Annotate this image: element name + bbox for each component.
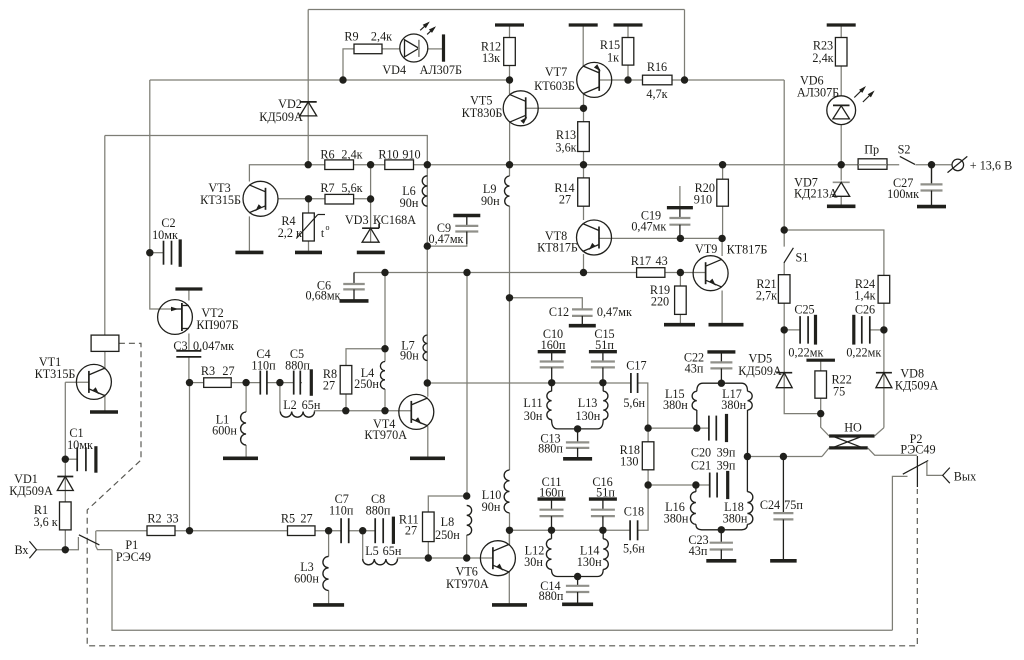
svg-text:КТ315Б: КТ315Б bbox=[35, 367, 76, 381]
label VD8 bbox=[895, 367, 939, 393]
resistor R17 bbox=[637, 268, 665, 278]
svg-text:65н: 65н bbox=[302, 398, 321, 412]
svg-text:600н: 600н bbox=[294, 572, 319, 586]
bar VD4 термination bbox=[442, 34, 445, 61]
resistor R15 bbox=[622, 38, 634, 66]
svg-text:90н: 90н bbox=[400, 349, 419, 363]
svg-text:КТ830Б: КТ830Б bbox=[462, 106, 503, 120]
wire VT1 base bbox=[65, 381, 89, 383]
wire C3 bottom bbox=[188, 357, 190, 383]
node C22 bottom bbox=[718, 380, 725, 387]
transistor VT7 bbox=[577, 62, 612, 97]
inductor L12 L14 pair bbox=[546, 530, 608, 576]
diode VD5 bbox=[776, 373, 792, 388]
svg-text:130: 130 bbox=[620, 455, 638, 469]
node C6 row x467 bbox=[463, 269, 470, 276]
capacitor C11 bbox=[538, 499, 566, 530]
label L3 bbox=[294, 560, 319, 586]
ground R19 bbox=[664, 323, 695, 327]
wire R11 top link bbox=[428, 496, 466, 512]
svg-text:380н: 380н bbox=[721, 398, 746, 412]
label C23 bbox=[688, 533, 708, 558]
svg-text:380н: 380н bbox=[723, 512, 748, 526]
wire R15 leads bbox=[627, 25, 629, 80]
wire C27 stub bbox=[931, 165, 933, 185]
label +13.6V bbox=[970, 159, 1012, 173]
svg-text:R5: R5 bbox=[281, 512, 295, 526]
wire HO upper lead bbox=[821, 414, 829, 436]
svg-text:0,68мк: 0,68мк bbox=[306, 289, 341, 303]
resistor R13 bbox=[578, 122, 590, 152]
label S1 bbox=[795, 251, 808, 265]
node VT5 collector bbox=[506, 76, 513, 83]
wire R14 leads bbox=[583, 165, 585, 220]
transistor VT8 bbox=[577, 220, 612, 255]
node R9 branch bbox=[339, 76, 346, 83]
wire R21 bottom bbox=[783, 303, 785, 330]
wire VD4 to bar bbox=[428, 48, 444, 50]
transistor VT5 bbox=[503, 91, 538, 126]
node R19 top bbox=[677, 269, 684, 276]
label L2 bbox=[283, 398, 321, 412]
inductor L6 bbox=[422, 176, 427, 206]
capacitor C24 bbox=[770, 457, 797, 561]
capacitor C13 bbox=[563, 429, 592, 459]
svg-text:0,047мк: 0,047мк bbox=[193, 339, 234, 353]
label C27 bbox=[887, 176, 919, 201]
wire C26 link bbox=[870, 329, 884, 331]
resistor R23 bbox=[835, 38, 847, 67]
wire L1 gnd lead bbox=[245, 445, 247, 458]
label C12 bbox=[549, 305, 632, 319]
wire x467 column bbox=[466, 273, 468, 497]
label R16 bbox=[646, 60, 667, 101]
label VD4 bbox=[382, 63, 462, 77]
wire R13 leads bbox=[583, 108, 585, 164]
svg-text:2,7к: 2,7к bbox=[756, 289, 777, 303]
wire C19 top stub bbox=[679, 186, 681, 206]
svg-text:39п: 39п bbox=[717, 459, 736, 473]
inductor L2 bbox=[280, 411, 316, 418]
wire L1 stub bbox=[245, 383, 247, 412]
wire P2 right contact bbox=[927, 462, 943, 475]
svg-text:110п: 110п bbox=[251, 359, 276, 373]
wire VT1 emitter bbox=[104, 394, 106, 411]
label C18 bbox=[623, 504, 645, 555]
svg-text:130н: 130н bbox=[577, 555, 602, 569]
wire y456 row bbox=[747, 456, 822, 458]
resistor R8 bbox=[340, 366, 352, 395]
label R22 bbox=[832, 373, 852, 399]
label R4 bbox=[278, 214, 330, 240]
svg-text:КД213А: КД213А bbox=[794, 187, 838, 201]
wire R18 leads bbox=[647, 428, 649, 485]
transistor VT3 bbox=[243, 181, 278, 216]
wire VT2 drain bbox=[188, 289, 190, 301]
wire HO lower-left link bbox=[822, 448, 829, 457]
label VT1 bbox=[35, 355, 76, 381]
svg-text:100мк: 100мк bbox=[887, 187, 919, 201]
wire R8 bot lead bbox=[345, 394, 347, 411]
svg-text:43: 43 bbox=[656, 254, 668, 268]
inductor L5 bbox=[363, 558, 399, 565]
svg-text:75: 75 bbox=[833, 385, 845, 399]
label L9 bbox=[481, 182, 500, 208]
diode VD2 bbox=[300, 102, 317, 116]
wire R24 branch bbox=[784, 230, 884, 275]
svg-text:160п: 160п bbox=[539, 486, 564, 500]
capacitor C12 bbox=[569, 309, 596, 325]
wire VD8 column bbox=[883, 330, 885, 428]
svg-text:C20: C20 bbox=[691, 446, 711, 460]
capacitor C22 bbox=[707, 352, 735, 383]
svg-text:30н: 30н bbox=[524, 409, 543, 423]
label L15 bbox=[663, 387, 688, 412]
label R18 bbox=[620, 443, 640, 469]
wire VT6 emitter bbox=[508, 572, 510, 605]
label R1 bbox=[33, 503, 57, 529]
node R22 bottom bbox=[817, 410, 824, 417]
svg-text:2,4к: 2,4к bbox=[341, 148, 362, 162]
label C2 bbox=[152, 216, 178, 242]
svg-text:3,6к: 3,6к bbox=[555, 141, 576, 155]
label HO bbox=[844, 421, 862, 435]
wire VT7 emitter top bbox=[582, 25, 584, 67]
label Vyx bbox=[954, 470, 976, 484]
node R11 bottom bbox=[425, 554, 432, 561]
label R13 bbox=[555, 128, 576, 155]
svg-text:2,4к: 2,4к bbox=[371, 30, 392, 44]
svg-text:250н: 250н bbox=[354, 377, 379, 391]
svg-text:0,47мк: 0,47мк bbox=[597, 305, 632, 319]
node C11 bottom bbox=[548, 527, 555, 534]
label L13 bbox=[575, 396, 600, 423]
label VD1 bbox=[9, 472, 53, 498]
label Vx bbox=[14, 543, 28, 557]
capacitor C14 bbox=[562, 577, 593, 605]
node C27 top bbox=[928, 161, 935, 168]
power bar VT2 drain bbox=[175, 287, 202, 290]
svg-text:РЭС49: РЭС49 bbox=[116, 550, 151, 564]
label C22 bbox=[684, 351, 704, 376]
inductor L15 L17 tank bbox=[692, 383, 752, 456]
label VT8 bbox=[537, 229, 578, 255]
wire VT2 gate entry bbox=[159, 308, 177, 310]
node C17 out bbox=[644, 424, 651, 431]
wire y136 link bbox=[105, 136, 428, 165]
node L4 top bbox=[381, 345, 388, 352]
node C24 top bbox=[780, 453, 787, 460]
wire S1 column bbox=[783, 80, 785, 247]
svg-text:КС168А: КС168А bbox=[373, 213, 416, 227]
wire R2-R5 row bbox=[175, 530, 375, 532]
svg-text:КТ817Б: КТ817Б bbox=[537, 241, 578, 255]
node R13 rail bbox=[580, 161, 587, 168]
wire R4 leads bbox=[308, 199, 310, 251]
wire R23 leads bbox=[840, 25, 842, 96]
relay contacts HO bbox=[829, 436, 874, 448]
node C16 bottom bbox=[599, 527, 606, 534]
svg-text:27: 27 bbox=[405, 524, 417, 538]
capacitor C25 bbox=[800, 315, 815, 345]
terminal +13.6V bbox=[948, 156, 968, 172]
ground L3 bbox=[313, 603, 344, 607]
node VT6 collector bbox=[506, 527, 513, 534]
wire L6 column bbox=[426, 165, 428, 383]
svg-text:L5: L5 bbox=[365, 544, 379, 558]
svg-text:2,2 к: 2,2 к bbox=[278, 226, 302, 240]
wire top bus right drop bbox=[684, 10, 686, 81]
node C1 junction bbox=[62, 456, 69, 463]
wire C11 row bbox=[510, 529, 631, 531]
svg-text:VT7: VT7 bbox=[545, 65, 567, 79]
wire y485 row bbox=[648, 484, 710, 486]
node S1 top branch bbox=[781, 226, 788, 233]
svg-text:R7: R7 bbox=[320, 181, 334, 195]
label C21 bbox=[691, 459, 736, 473]
label L11 bbox=[523, 396, 543, 423]
terminal Vx bbox=[29, 541, 36, 558]
svg-text:C21: C21 bbox=[691, 459, 711, 473]
svg-text:880п: 880п bbox=[366, 504, 391, 518]
label C15 bbox=[594, 327, 614, 352]
label VT4 bbox=[364, 417, 407, 442]
svg-text:110п: 110п bbox=[329, 504, 354, 518]
node R6-R10 junction bbox=[367, 161, 374, 168]
transistor VT1 bbox=[76, 364, 111, 399]
wire L3 stub bbox=[328, 531, 330, 557]
svg-text:0,47мк: 0,47мк bbox=[631, 220, 666, 234]
capacitor C20 bbox=[709, 414, 727, 442]
wire R9 to VD4 bbox=[382, 48, 400, 50]
switch S1 bbox=[784, 248, 793, 263]
svg-text:880п: 880п bbox=[285, 359, 310, 373]
wire VT5 base row bbox=[526, 107, 584, 109]
node C4-C5 junction bbox=[276, 379, 283, 386]
wire C2 branch bbox=[150, 252, 163, 254]
node VD3 top bbox=[367, 195, 374, 202]
svg-text:39п: 39п bbox=[717, 446, 736, 460]
svg-text:27: 27 bbox=[222, 364, 234, 378]
relay coil P1 bbox=[91, 335, 119, 351]
label VT3 bbox=[200, 181, 241, 207]
transistor VT9 bbox=[693, 256, 728, 291]
wire bottom bus bbox=[112, 550, 892, 631]
wire VT9 emitter lead bbox=[721, 291, 723, 324]
label C10 bbox=[541, 327, 566, 352]
label P1 bbox=[116, 538, 151, 564]
node VT4 collector bbox=[424, 379, 431, 386]
label R17 bbox=[631, 254, 668, 268]
wire VT5 collector bbox=[509, 80, 511, 94]
label C19 bbox=[631, 209, 666, 234]
resistor R16 bbox=[643, 75, 673, 85]
svg-text:R6: R6 bbox=[320, 148, 334, 162]
transistor VT2 circle bbox=[158, 300, 193, 335]
label L1 bbox=[212, 413, 237, 438]
svg-text:C12: C12 bbox=[549, 305, 569, 319]
resistor R12 bbox=[504, 38, 516, 66]
power bar R12 bbox=[495, 23, 524, 26]
dashed relay link P1 coil bbox=[87, 343, 917, 646]
label VD6 bbox=[797, 74, 839, 100]
resistor R18 bbox=[642, 442, 654, 470]
wire y428 row bbox=[648, 427, 709, 429]
svg-text:910: 910 bbox=[694, 193, 712, 207]
wire C12 branch bbox=[510, 298, 583, 310]
label R9 bbox=[344, 30, 392, 44]
capacitor C23 bbox=[706, 530, 736, 561]
label VT5 bbox=[462, 94, 503, 121]
wire R11 bot lead bbox=[427, 542, 429, 558]
wire VT6 base row bbox=[399, 557, 493, 559]
wire VD6 bottom lead bbox=[840, 125, 842, 165]
label R5 bbox=[281, 512, 313, 526]
wire VT4 base row bbox=[316, 410, 411, 412]
label R2 bbox=[147, 512, 178, 526]
wire VT4 collector bbox=[427, 383, 429, 397]
svg-text:3,6 к: 3,6 к bbox=[33, 515, 57, 529]
label C26 bbox=[846, 303, 881, 360]
svg-text:VT9: VT9 bbox=[695, 242, 717, 256]
label R23 bbox=[812, 39, 833, 66]
switch S2 bbox=[900, 156, 915, 164]
wire S1-R21 link bbox=[783, 263, 785, 275]
wire top bus bbox=[308, 9, 684, 11]
svg-text:КД509А: КД509А bbox=[9, 484, 53, 498]
wire VT2 source bbox=[188, 334, 190, 351]
label R24 bbox=[854, 277, 875, 303]
resistor R3 bbox=[204, 378, 232, 388]
svg-text:43п: 43п bbox=[685, 362, 704, 376]
svg-text:27: 27 bbox=[300, 512, 312, 526]
svg-text:13к: 13к bbox=[482, 51, 500, 65]
node C10 bottom bbox=[548, 379, 555, 386]
svg-text:L8: L8 bbox=[441, 515, 455, 529]
svg-text:0,22мк: 0,22мк bbox=[846, 346, 881, 360]
inductor L7 bbox=[423, 335, 427, 361]
capacitor C1 bbox=[77, 446, 96, 473]
label VD2 bbox=[259, 97, 303, 124]
wire VT4 emitter bbox=[427, 426, 429, 457]
transistor VT2 channel bbox=[171, 303, 189, 331]
svg-text:220: 220 bbox=[651, 295, 669, 309]
svg-text:КТ603Б: КТ603Б bbox=[534, 79, 575, 93]
svg-text:VD2: VD2 bbox=[278, 97, 302, 111]
label C3 bbox=[173, 339, 234, 353]
label VT9 bbox=[695, 242, 767, 257]
wire R19 leads bbox=[679, 273, 681, 324]
ground L1 bbox=[223, 456, 258, 460]
ground R4 bbox=[295, 251, 322, 255]
node R18 bottom bbox=[644, 481, 651, 488]
wire VT3 base row bbox=[278, 198, 371, 200]
label C25 bbox=[788, 303, 823, 360]
resistor R19 bbox=[675, 286, 687, 314]
power bar VT7 bbox=[569, 23, 598, 26]
wire C10 row bbox=[427, 382, 631, 384]
resistor R11 bbox=[423, 512, 435, 542]
label L7 bbox=[400, 339, 419, 363]
node L8 bottom bbox=[463, 554, 470, 561]
label C7 bbox=[329, 492, 354, 518]
svg-text:880п: 880п bbox=[538, 442, 563, 456]
svg-text:27: 27 bbox=[323, 379, 335, 393]
label L6 bbox=[400, 184, 419, 210]
label C24 bbox=[760, 498, 803, 512]
node C9 branch bbox=[424, 242, 431, 249]
transistor VT6 bbox=[480, 541, 515, 576]
wire L3 gnd lead bbox=[328, 591, 330, 605]
node L4 bottom bbox=[381, 407, 388, 414]
capacitor C21 bbox=[710, 471, 728, 499]
wire L8 bottom bbox=[466, 535, 468, 558]
svg-text:РЭС49: РЭС49 bbox=[900, 443, 935, 457]
capacitor C17 bbox=[631, 373, 638, 393]
svg-text:30н: 30н bbox=[524, 555, 543, 569]
LED VD6 bbox=[827, 86, 875, 125]
label R21 bbox=[756, 277, 777, 303]
wire VD7 leads bbox=[840, 165, 842, 205]
label C8 bbox=[366, 492, 391, 518]
label L8 bbox=[435, 515, 460, 542]
capacitor C18 bbox=[630, 520, 638, 540]
label R19 bbox=[650, 283, 670, 309]
svg-text:10мк: 10мк bbox=[67, 438, 93, 452]
node Vx junction bbox=[62, 546, 69, 553]
node R4 top bbox=[305, 195, 312, 202]
label C1 bbox=[67, 426, 93, 452]
svg-text:R3: R3 bbox=[201, 364, 215, 378]
svg-text:10мк: 10мк bbox=[152, 228, 178, 242]
svg-text:КД509А: КД509А bbox=[738, 364, 782, 378]
ground VD3 bbox=[357, 251, 385, 255]
label C17 bbox=[623, 359, 646, 410]
svg-text:600н: 600н bbox=[212, 424, 237, 438]
svg-text:C18: C18 bbox=[624, 504, 644, 518]
wire rail S2 to terminal bbox=[915, 164, 952, 166]
capacitor C15 bbox=[589, 352, 617, 383]
node C14 top bbox=[574, 573, 581, 580]
svg-text:R16: R16 bbox=[647, 60, 667, 74]
node R16 out bbox=[681, 76, 688, 83]
capacitor C8 bbox=[375, 517, 393, 544]
wire VT5 emitter lead bbox=[509, 123, 511, 165]
label R12 bbox=[481, 40, 501, 66]
svg-text:C26: C26 bbox=[855, 303, 875, 317]
label R10 bbox=[378, 148, 420, 162]
svg-text:51п: 51п bbox=[595, 338, 614, 352]
wire VT8 base row y238 bbox=[599, 237, 723, 239]
resistor R21 bbox=[778, 275, 790, 304]
wire VT3 emitter bbox=[248, 216, 250, 250]
wire HO right link bbox=[875, 428, 884, 436]
label Pr bbox=[864, 143, 879, 157]
label S2 bbox=[898, 143, 911, 157]
relay contact P1 lever bbox=[79, 535, 100, 545]
resistor R1 bbox=[60, 502, 72, 530]
svg-text:Вых: Вых bbox=[954, 470, 976, 484]
svg-text:65н: 65н bbox=[383, 544, 402, 558]
resistor R2 bbox=[147, 526, 175, 536]
node R3 out bbox=[242, 379, 249, 386]
node R24 bottom bbox=[880, 326, 887, 333]
wire L10 bottom bbox=[509, 513, 511, 545]
wire VT6 collector bbox=[508, 530, 510, 542]
wire VD3 column bbox=[370, 165, 372, 242]
resistor R9 bbox=[354, 44, 382, 54]
svg-text:33: 33 bbox=[166, 512, 178, 526]
